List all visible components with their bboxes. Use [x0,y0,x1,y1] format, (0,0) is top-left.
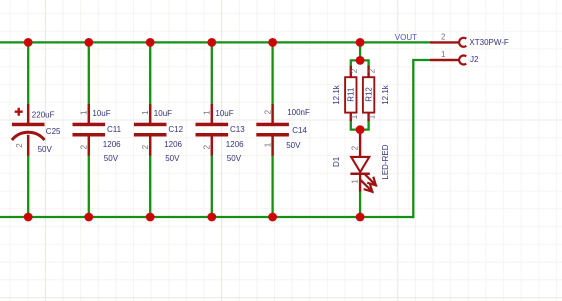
svg-text:C13: C13 [230,125,245,134]
junction resistor split [356,56,365,65]
junction top bus / C25 [24,38,33,47]
svg-text:J2: J2 [470,55,479,64]
svg-text:LED-RED: LED-RED [381,144,390,179]
junction bottom bus / D1 [356,213,365,222]
svg-text:1: 1 [80,110,89,115]
svg-text:10uF: 10uF [154,109,172,118]
svg-text:1: 1 [441,50,446,59]
svg-text:1206: 1206 [226,140,244,149]
resistor R11 [345,66,356,121]
svg-text:12.1k: 12.1k [381,84,390,105]
svg-text:2: 2 [80,144,89,149]
svg-text:50V: 50V [286,141,301,150]
svg-text:2: 2 [263,109,272,114]
polarity plus sign C25 [15,108,23,116]
svg-text:50V: 50V [165,154,180,163]
svg-text:10uF: 10uF [215,109,233,118]
junction top bus / C14 [268,38,277,47]
svg-text:2: 2 [441,33,446,42]
junction bottom bus / C11 [84,213,93,222]
junction top bus / C12 [146,38,155,47]
wire bottom bus [0,216,413,218]
wire cap column 3 top [149,42,151,104]
svg-text:220uF: 220uF [32,110,55,119]
wire VOUT top bus [0,41,430,43]
svg-text:C12: C12 [168,125,183,134]
junction top bus / resistor branch [356,38,365,47]
svg-text:100nF: 100nF [287,108,310,117]
junction bottom bus / C12 [146,213,155,222]
wire right vertical (J2 pin1 to bottom bus) [413,60,430,218]
svg-text:1: 1 [263,142,272,147]
wire cap column 2 top [88,42,90,104]
svg-text:50V: 50V [104,154,119,163]
resistor R12 [363,66,374,121]
junction bottom bus / C14 [268,213,277,222]
capacitor C11 [73,104,106,156]
wire LED cathode to bottom bus [359,191,361,217]
wire resistor branch from top bus [359,42,361,60]
svg-text:1: 1 [351,179,360,184]
connector J2 pin 2 [430,38,466,47]
svg-text:XT30PW-F: XT30PW-F [469,38,509,47]
svg-text:1206: 1206 [164,140,182,149]
capacitor C14 [256,104,289,156]
svg-text:12.1k: 12.1k [332,84,341,105]
wire cap column 1 bottom [27,155,29,217]
svg-text:2: 2 [15,143,24,148]
wire cap column 4 bottom [211,155,213,217]
connector J2 pin 1 [430,56,466,65]
capacitor C13 [196,104,229,156]
wire resistor top split [351,60,369,67]
svg-text:50V: 50V [38,145,53,154]
capacitor C12 [134,104,167,156]
junction resistor merge / D1 [356,125,365,134]
svg-text:1: 1 [141,110,150,115]
svg-text:C11: C11 [107,125,122,134]
wire cap column 1 top [27,42,29,104]
junction top bus / C11 [84,38,93,47]
svg-text:D1: D1 [332,156,341,167]
svg-text:1: 1 [368,114,377,119]
capacitor C25 [12,104,45,156]
svg-text:2: 2 [203,144,212,149]
junction bottom bus / C25 [24,213,33,222]
LED D1 [350,131,369,192]
svg-text:R11: R11 [347,87,356,102]
svg-text:C14: C14 [292,126,307,135]
junction top bus / C13 [207,38,216,47]
svg-text:1: 1 [203,110,212,115]
svg-text:10uF: 10uF [92,109,110,118]
svg-text:2: 2 [351,145,360,150]
svg-text:1: 1 [350,114,359,119]
svg-text:2: 2 [368,68,377,73]
wire cap column 2 bottom [88,155,90,217]
svg-text:2: 2 [350,68,359,73]
wire cap column 4 top [211,42,213,104]
wire cap column 3 bottom [149,155,151,217]
svg-text:1206: 1206 [103,140,121,149]
svg-text:2: 2 [141,144,150,149]
svg-text:VOUT: VOUT [395,33,417,42]
svg-text:50V: 50V [227,154,242,163]
junction bottom bus / C13 [207,213,216,222]
wire cap column 5 top [271,42,273,104]
LED emission arrows D1 [361,174,376,191]
wire cap column 5 bottom [271,155,273,217]
svg-text:R12: R12 [365,87,374,102]
wire resistor bottom merge [351,120,369,133]
svg-text:C25: C25 [46,127,61,136]
